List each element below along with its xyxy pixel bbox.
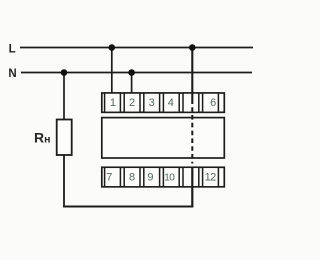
relay body <box>102 118 225 158</box>
svg-text:10: 10 <box>164 172 175 183</box>
terminal box 9 <box>144 167 160 187</box>
svg-text:1: 1 <box>110 97 116 109</box>
resistor Rн <box>57 120 72 156</box>
wire bottom return run <box>63 206 193 208</box>
terminal box 5 blank <box>183 93 199 112</box>
terminal box 4 <box>163 93 179 112</box>
terminal strip top outer box <box>102 93 225 112</box>
terminal box 7 <box>105 167 121 187</box>
svg-text:3: 3 <box>149 97 155 109</box>
wire from resistor Rн down <box>63 155 65 207</box>
wire through terminal 5 <box>191 93 193 104</box>
terminal box 1 <box>105 93 121 112</box>
node junction on L at x=111.8 <box>109 44 116 51</box>
svg-text:7: 7 <box>106 172 112 184</box>
terminal box 8 <box>124 167 140 187</box>
terminal box 10 <box>163 167 179 187</box>
node junction on N at x=131.6 <box>128 69 135 76</box>
terminal box 2 <box>124 93 140 112</box>
terminal box 6 <box>203 93 219 112</box>
svg-text:9: 9 <box>147 172 153 184</box>
svg-text:N: N <box>8 68 16 80</box>
wire N line <box>21 72 252 74</box>
wire dashed internal link 5 to 11 <box>191 104 193 164</box>
svg-text:L: L <box>9 44 16 56</box>
svg-text:2: 2 <box>129 97 135 109</box>
wire from terminal 11 down <box>191 167 193 207</box>
wire from L to terminal 1 <box>111 48 113 94</box>
wire L line <box>20 47 253 49</box>
svg-text:12: 12 <box>205 172 217 184</box>
wire from L to terminal 5 <box>191 48 193 105</box>
wire from N to resistor Rн <box>63 73 65 121</box>
terminal box 11 blank <box>183 167 199 187</box>
svg-text:8: 8 <box>129 172 135 184</box>
terminal strip bottom outer box <box>102 167 225 187</box>
terminal box 12 <box>203 167 219 187</box>
terminal box 3 <box>144 93 160 112</box>
svg-text:6: 6 <box>210 97 216 109</box>
node junction on L at x=192.3 <box>189 44 196 51</box>
node junction on N at x=64 <box>61 69 68 76</box>
wire from N to terminal 2 <box>131 73 133 94</box>
svg-text:4: 4 <box>168 97 174 109</box>
